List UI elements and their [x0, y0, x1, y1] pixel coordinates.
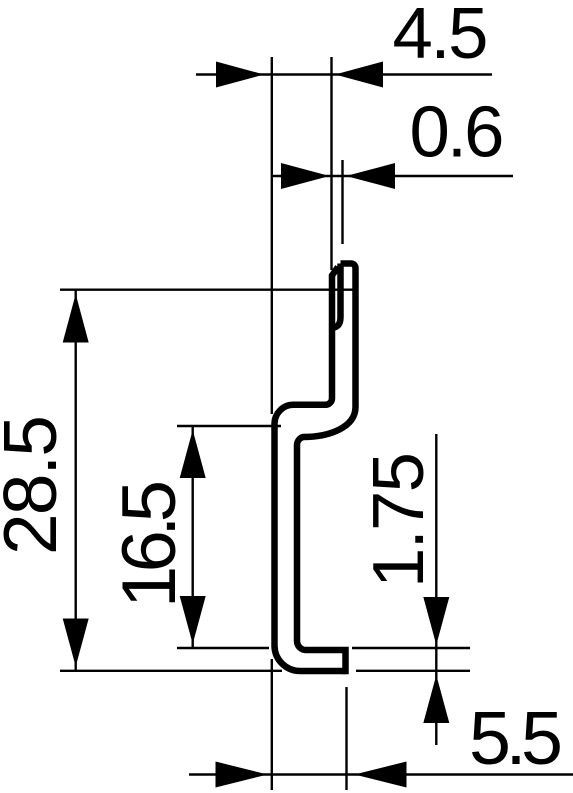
extension line 16.5 top (y=426) — [177, 425, 281, 427]
svg-text:16.5: 16.5 — [107, 480, 192, 608]
svg-text:5.5: 5.5 — [469, 696, 563, 780]
dimension line 1.75 — [435, 434, 437, 745]
dimension line 28.5 — [74, 290, 76, 671]
extension line 16.5 bottom (y=648) — [177, 647, 269, 649]
arrow 16.5 top — [180, 430, 206, 478]
extension line right of 0.6 (x=342.5) — [341, 160, 343, 244]
dimension line 16.5 — [191, 426, 193, 648]
extension line right bottom (x=346.5) — [345, 687, 347, 790]
arrow 16.5 bottom — [180, 596, 206, 644]
arrow 28.5 bottom — [63, 619, 89, 667]
dimension line 0.6 — [271, 175, 513, 177]
dimension line 5.5 — [189, 773, 573, 775]
extension line 1.75 top (y=648 right) — [352, 647, 470, 649]
extension line 1.75 bottom (y=670.8 right) — [356, 670, 470, 672]
arrow 0.6 left — [281, 163, 330, 189]
part outline: flange end, inner surface up to hook top bar — [297, 264, 356, 675]
part outline: outer-left surface (wall, S-jog, lower wall, bottom flange) — [275, 267, 346, 671]
arrow 28.5 top — [63, 294, 89, 343]
arrow 1.75 up — [423, 675, 449, 723]
svg-text:1.75: 1.75 — [358, 452, 439, 588]
arrow 0.6 right — [346, 163, 395, 189]
arrow 5.5 left — [216, 762, 268, 788]
extension line right (x=331.5) — [330, 57, 332, 270]
arrow 4.5 right — [335, 62, 383, 88]
svg-text:0.6: 0.6 — [410, 92, 505, 173]
extension line left (x=271.8 top) — [271, 57, 273, 414]
svg-text:28.5: 28.5 — [0, 415, 72, 555]
extension line left bottom (x=271.8) — [271, 659, 273, 790]
arrow 4.5 left — [216, 62, 264, 88]
part: hook left leg with foot — [333, 264, 341, 328]
extension line 28.5 top (y=289.7) — [60, 289, 353, 291]
dimension line 4.5 — [196, 73, 492, 75]
extension line 28.5 bottom (y=670.8) — [60, 670, 282, 672]
arrow 1.75 down — [423, 597, 449, 645]
svg-text:4.5: 4.5 — [393, 0, 489, 74]
arrow 5.5 right — [355, 762, 407, 788]
